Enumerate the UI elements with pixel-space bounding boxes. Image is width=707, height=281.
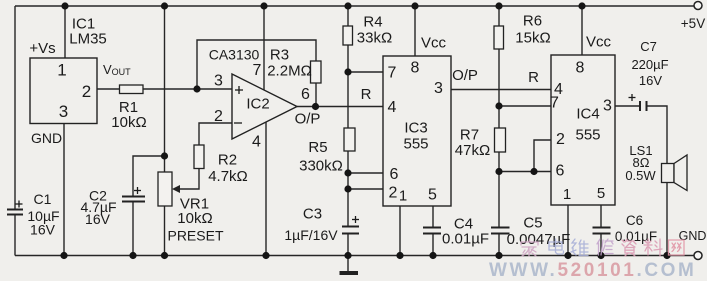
node gnd-pin4 bbox=[262, 252, 269, 259]
svg-text:IC3: IC3 bbox=[404, 120, 427, 137]
resistor R1 bbox=[120, 85, 144, 94]
svg-text:IC2: IC2 bbox=[246, 96, 269, 113]
svg-text:4: 4 bbox=[388, 99, 397, 116]
svg-text:GND: GND bbox=[31, 130, 62, 146]
plus C7 bbox=[629, 97, 636, 99]
wire IC4 pin8 to rail bbox=[581, 6, 583, 55]
wire left edge upper bbox=[14, 6, 16, 209]
node dots bbox=[60, 2, 670, 259]
svg-text:0.5W: 0.5W bbox=[625, 168, 656, 183]
wire C4 to ground rail bbox=[432, 235, 434, 256]
IC3 555 body bbox=[383, 56, 451, 206]
wm char zi bbox=[622, 239, 636, 256]
svg-text:2: 2 bbox=[82, 82, 91, 101]
svg-text:8: 8 bbox=[576, 60, 585, 77]
minus op-amp inverting bbox=[234, 122, 242, 124]
svg-text:C1: C1 bbox=[34, 191, 52, 207]
node gnd-C2 bbox=[129, 252, 136, 259]
wire IC3 pin5 to C4 bbox=[432, 206, 434, 227]
svg-text:555: 555 bbox=[403, 136, 428, 153]
capacitor C7 plates bbox=[640, 101, 647, 111]
wire R5 bottom to C3 bbox=[347, 151, 349, 226]
wire op-amp pin2 to R2 bbox=[199, 123, 232, 145]
plus C3 bbox=[352, 219, 359, 221]
node gnd-C4 bbox=[429, 252, 436, 259]
node R4-pin7 bbox=[344, 68, 351, 75]
svg-text:+Vs: +Vs bbox=[29, 40, 55, 57]
svg-text:2: 2 bbox=[389, 185, 398, 202]
svg-text:4: 4 bbox=[252, 134, 261, 151]
wm char liao bbox=[644, 239, 662, 256]
wire IC3 pin8 to rail bbox=[414, 6, 416, 56]
node gnd-LS1 bbox=[663, 252, 670, 259]
node R7-pin6 bbox=[495, 168, 502, 175]
svg-text:7: 7 bbox=[388, 65, 397, 82]
svg-text:33kΩ: 33kΩ bbox=[357, 30, 392, 47]
svg-text:C3: C3 bbox=[303, 206, 322, 223]
svg-text:1: 1 bbox=[399, 188, 407, 205]
node rail-IC3vcc bbox=[411, 2, 418, 9]
wire C5 to ground rail bbox=[498, 235, 500, 256]
speaker LS1 bbox=[662, 164, 675, 183]
svg-text:R4: R4 bbox=[363, 14, 382, 31]
svg-text:220µF: 220µF bbox=[631, 57, 668, 72]
potentiometer VR1 body bbox=[158, 172, 172, 206]
svg-text:2: 2 bbox=[214, 108, 223, 125]
svg-text:PRESET: PRESET bbox=[167, 228, 223, 244]
wire R6 bottom through to R7 bbox=[498, 49, 500, 128]
resistor R3 bbox=[311, 61, 322, 83]
svg-text:16V: 16V bbox=[639, 73, 662, 88]
svg-text:15kΩ: 15kΩ bbox=[515, 30, 550, 47]
svg-text:WWW.520101.COM: WWW.520101.COM bbox=[489, 260, 696, 281]
wm char dian bbox=[549, 239, 564, 254]
node R5-pin6 bbox=[344, 169, 351, 176]
plus C1 bbox=[16, 203, 23, 205]
svg-text:0.01µF: 0.01µF bbox=[442, 231, 489, 248]
svg-text:7: 7 bbox=[550, 95, 559, 112]
node gnd-C3 bbox=[344, 252, 351, 259]
node gnd-IC1 bbox=[60, 252, 67, 259]
wire node R4 to IC3 pin7 bbox=[348, 71, 383, 73]
svg-text:7: 7 bbox=[253, 62, 262, 79]
svg-text:R3: R3 bbox=[270, 47, 289, 64]
wire R2 bottom to VR1 wiper bbox=[175, 169, 199, 190]
wire node R6 to IC4 pin7 bbox=[499, 105, 551, 107]
svg-text:3: 3 bbox=[603, 98, 612, 115]
svg-text:6: 6 bbox=[390, 166, 399, 183]
node rail-R6 bbox=[495, 2, 502, 9]
IC1 LM35 body bbox=[30, 58, 97, 124]
wm char wei bbox=[571, 239, 588, 256]
node gnd-VR1 bbox=[161, 252, 168, 259]
svg-text:10kΩ: 10kΩ bbox=[111, 114, 146, 131]
svg-text:R: R bbox=[361, 86, 372, 103]
capacitor C2 plates bbox=[122, 197, 145, 202]
ground bbox=[340, 271, 359, 275]
wire C7 to speaker bbox=[647, 106, 667, 164]
svg-text:16V: 16V bbox=[30, 222, 56, 238]
svg-text:47kΩ: 47kΩ bbox=[455, 142, 490, 159]
wire ground stem bbox=[347, 256, 349, 272]
svg-text:Vcc: Vcc bbox=[421, 35, 447, 52]
node rail-pin7 bbox=[260, 2, 267, 9]
svg-text:LM35: LM35 bbox=[69, 31, 107, 48]
resistor R7 bbox=[495, 128, 506, 152]
svg-text:8: 8 bbox=[411, 60, 420, 77]
node A input bbox=[193, 85, 200, 92]
wire top +5V rail bbox=[15, 5, 694, 7]
wire node A up to feedback frame bbox=[197, 40, 316, 89]
wire left edge lower bbox=[14, 216, 16, 256]
wire IC3 pin3 to IC4 pin4 bbox=[451, 89, 551, 91]
svg-text:3: 3 bbox=[214, 73, 223, 90]
plus C2 bbox=[134, 190, 141, 192]
wm char jia bbox=[521, 239, 538, 256]
wire node B to C2 bbox=[133, 156, 165, 196]
svg-text:GND: GND bbox=[679, 229, 707, 243]
wire IC1 pin1 to rail bbox=[64, 6, 66, 58]
wire R6 top to rail bbox=[498, 6, 500, 26]
node pin2 branch bbox=[530, 168, 537, 175]
wire C6 to ground rail bbox=[600, 235, 602, 256]
wire op-amp pin4 to ground rail bbox=[265, 122, 267, 256]
svg-text:16V: 16V bbox=[85, 211, 111, 227]
op-amp U2 triangle bbox=[232, 74, 297, 139]
svg-text:R5: R5 bbox=[308, 139, 327, 156]
svg-text:330kΩ: 330kΩ bbox=[299, 158, 343, 175]
svg-text:1µF/16V: 1µF/16V bbox=[284, 227, 338, 243]
node gnd-C6 bbox=[597, 252, 604, 259]
capacitor C1 plates bbox=[7, 210, 23, 215]
node gnd-C5 bbox=[495, 252, 502, 259]
wire C2 to ground rail bbox=[132, 203, 134, 256]
wire R3 bottom to output node bbox=[315, 83, 317, 107]
wire IC4 pin3 to C7 bbox=[615, 105, 639, 107]
wire op-amp output to IC3 pin4 bbox=[297, 106, 383, 108]
svg-text:1: 1 bbox=[563, 186, 571, 203]
capacitor C6 plates bbox=[593, 228, 611, 234]
wire C3 bottom to rail bbox=[347, 235, 349, 256]
resistor R2 bbox=[194, 145, 204, 169]
node rail-VR1 bbox=[161, 2, 168, 9]
svg-text:1: 1 bbox=[57, 61, 66, 80]
potentiometer VR1 wiper arrow bbox=[172, 185, 180, 193]
resistor R4 bbox=[343, 26, 353, 45]
wire R1 to node A bbox=[143, 88, 232, 90]
terminal +5V bbox=[694, 2, 702, 10]
capacitor C4 plates bbox=[423, 228, 441, 234]
node opamp output bbox=[312, 103, 319, 110]
node B vr1 top bbox=[161, 152, 168, 159]
node rail-R4 bbox=[344, 2, 351, 9]
svg-text:O/P: O/P bbox=[295, 111, 321, 128]
terminal GND bbox=[694, 252, 702, 260]
svg-text:10kΩ: 10kΩ bbox=[177, 210, 212, 227]
wire R7 bottom to C5 bbox=[498, 152, 500, 227]
svg-text:4.7kΩ: 4.7kΩ bbox=[208, 168, 248, 185]
svg-text:CA3130: CA3130 bbox=[209, 47, 260, 63]
watermark chinese characters bbox=[521, 239, 684, 256]
wm char wang bbox=[669, 240, 685, 255]
svg-text:C7: C7 bbox=[640, 39, 657, 54]
svg-text:IC4: IC4 bbox=[576, 106, 599, 123]
wire IC4 pin1 to ground rail bbox=[567, 205, 569, 256]
wire +5V branch to VR1 bbox=[164, 6, 166, 172]
node gnd-IC4pin1 bbox=[564, 252, 571, 259]
resistor R5 bbox=[344, 128, 355, 151]
wire IC3 pin1 to ground rail bbox=[399, 206, 401, 256]
svg-text:C6: C6 bbox=[626, 213, 643, 228]
capacitor C5 plates bbox=[491, 228, 510, 234]
wire node to IC4 pin6 bbox=[499, 171, 551, 173]
node rail-IC1 bbox=[61, 2, 68, 9]
svg-text:+5V: +5V bbox=[681, 16, 705, 31]
wire IC1 pin2 to R1 bbox=[97, 88, 120, 90]
node rail-IC4vcc bbox=[578, 2, 585, 9]
svg-text:3: 3 bbox=[59, 102, 68, 121]
svg-text:6: 6 bbox=[301, 86, 310, 103]
node R5-pin2 bbox=[344, 185, 351, 192]
wire R4 top to rail bbox=[347, 6, 349, 26]
svg-text:6: 6 bbox=[556, 163, 565, 180]
IC4 555 body bbox=[551, 55, 615, 205]
capacitor C3 plates bbox=[342, 227, 359, 234]
wire IC1 pin3 to ground rail bbox=[63, 124, 65, 256]
svg-text:2: 2 bbox=[556, 131, 565, 148]
wire to IC3 pin6 bbox=[348, 172, 383, 174]
svg-text:R2: R2 bbox=[218, 152, 237, 169]
node R6-pin7 bbox=[495, 102, 502, 109]
plus/minus marks bbox=[16, 86, 636, 223]
wm char xiu bbox=[597, 239, 613, 255]
svg-text:Vcc: Vcc bbox=[586, 34, 612, 51]
wire to IC3 pin2 bbox=[348, 188, 383, 190]
wire speaker to ground rail bbox=[666, 183, 668, 256]
svg-text:2.2MΩ: 2.2MΩ bbox=[267, 63, 312, 80]
svg-text:R7: R7 bbox=[460, 127, 479, 144]
svg-text:5: 5 bbox=[597, 185, 605, 202]
node gnd-IC3pin1 bbox=[396, 252, 403, 259]
wire R4 bottom through to R5 bbox=[347, 45, 349, 128]
svg-text:3: 3 bbox=[434, 80, 443, 97]
svg-text:R: R bbox=[528, 69, 539, 86]
svg-text:R6: R6 bbox=[523, 13, 542, 30]
wire IC4 pin2 branch bbox=[534, 140, 551, 172]
svg-text:5: 5 bbox=[428, 187, 437, 204]
wire bottom ground rail bbox=[15, 255, 694, 257]
wire VR1 bottom to ground rail bbox=[164, 206, 166, 256]
plus op-amp noninverting bbox=[235, 89, 243, 91]
wire op-amp pin7 to +5V rail bbox=[263, 6, 265, 90]
svg-text:O/P: O/P bbox=[452, 67, 478, 84]
svg-text:C5: C5 bbox=[523, 215, 542, 232]
svg-text:555: 555 bbox=[575, 127, 600, 144]
wire IC4 pin5 to C6 bbox=[600, 205, 602, 227]
resistor R6 bbox=[494, 26, 504, 49]
